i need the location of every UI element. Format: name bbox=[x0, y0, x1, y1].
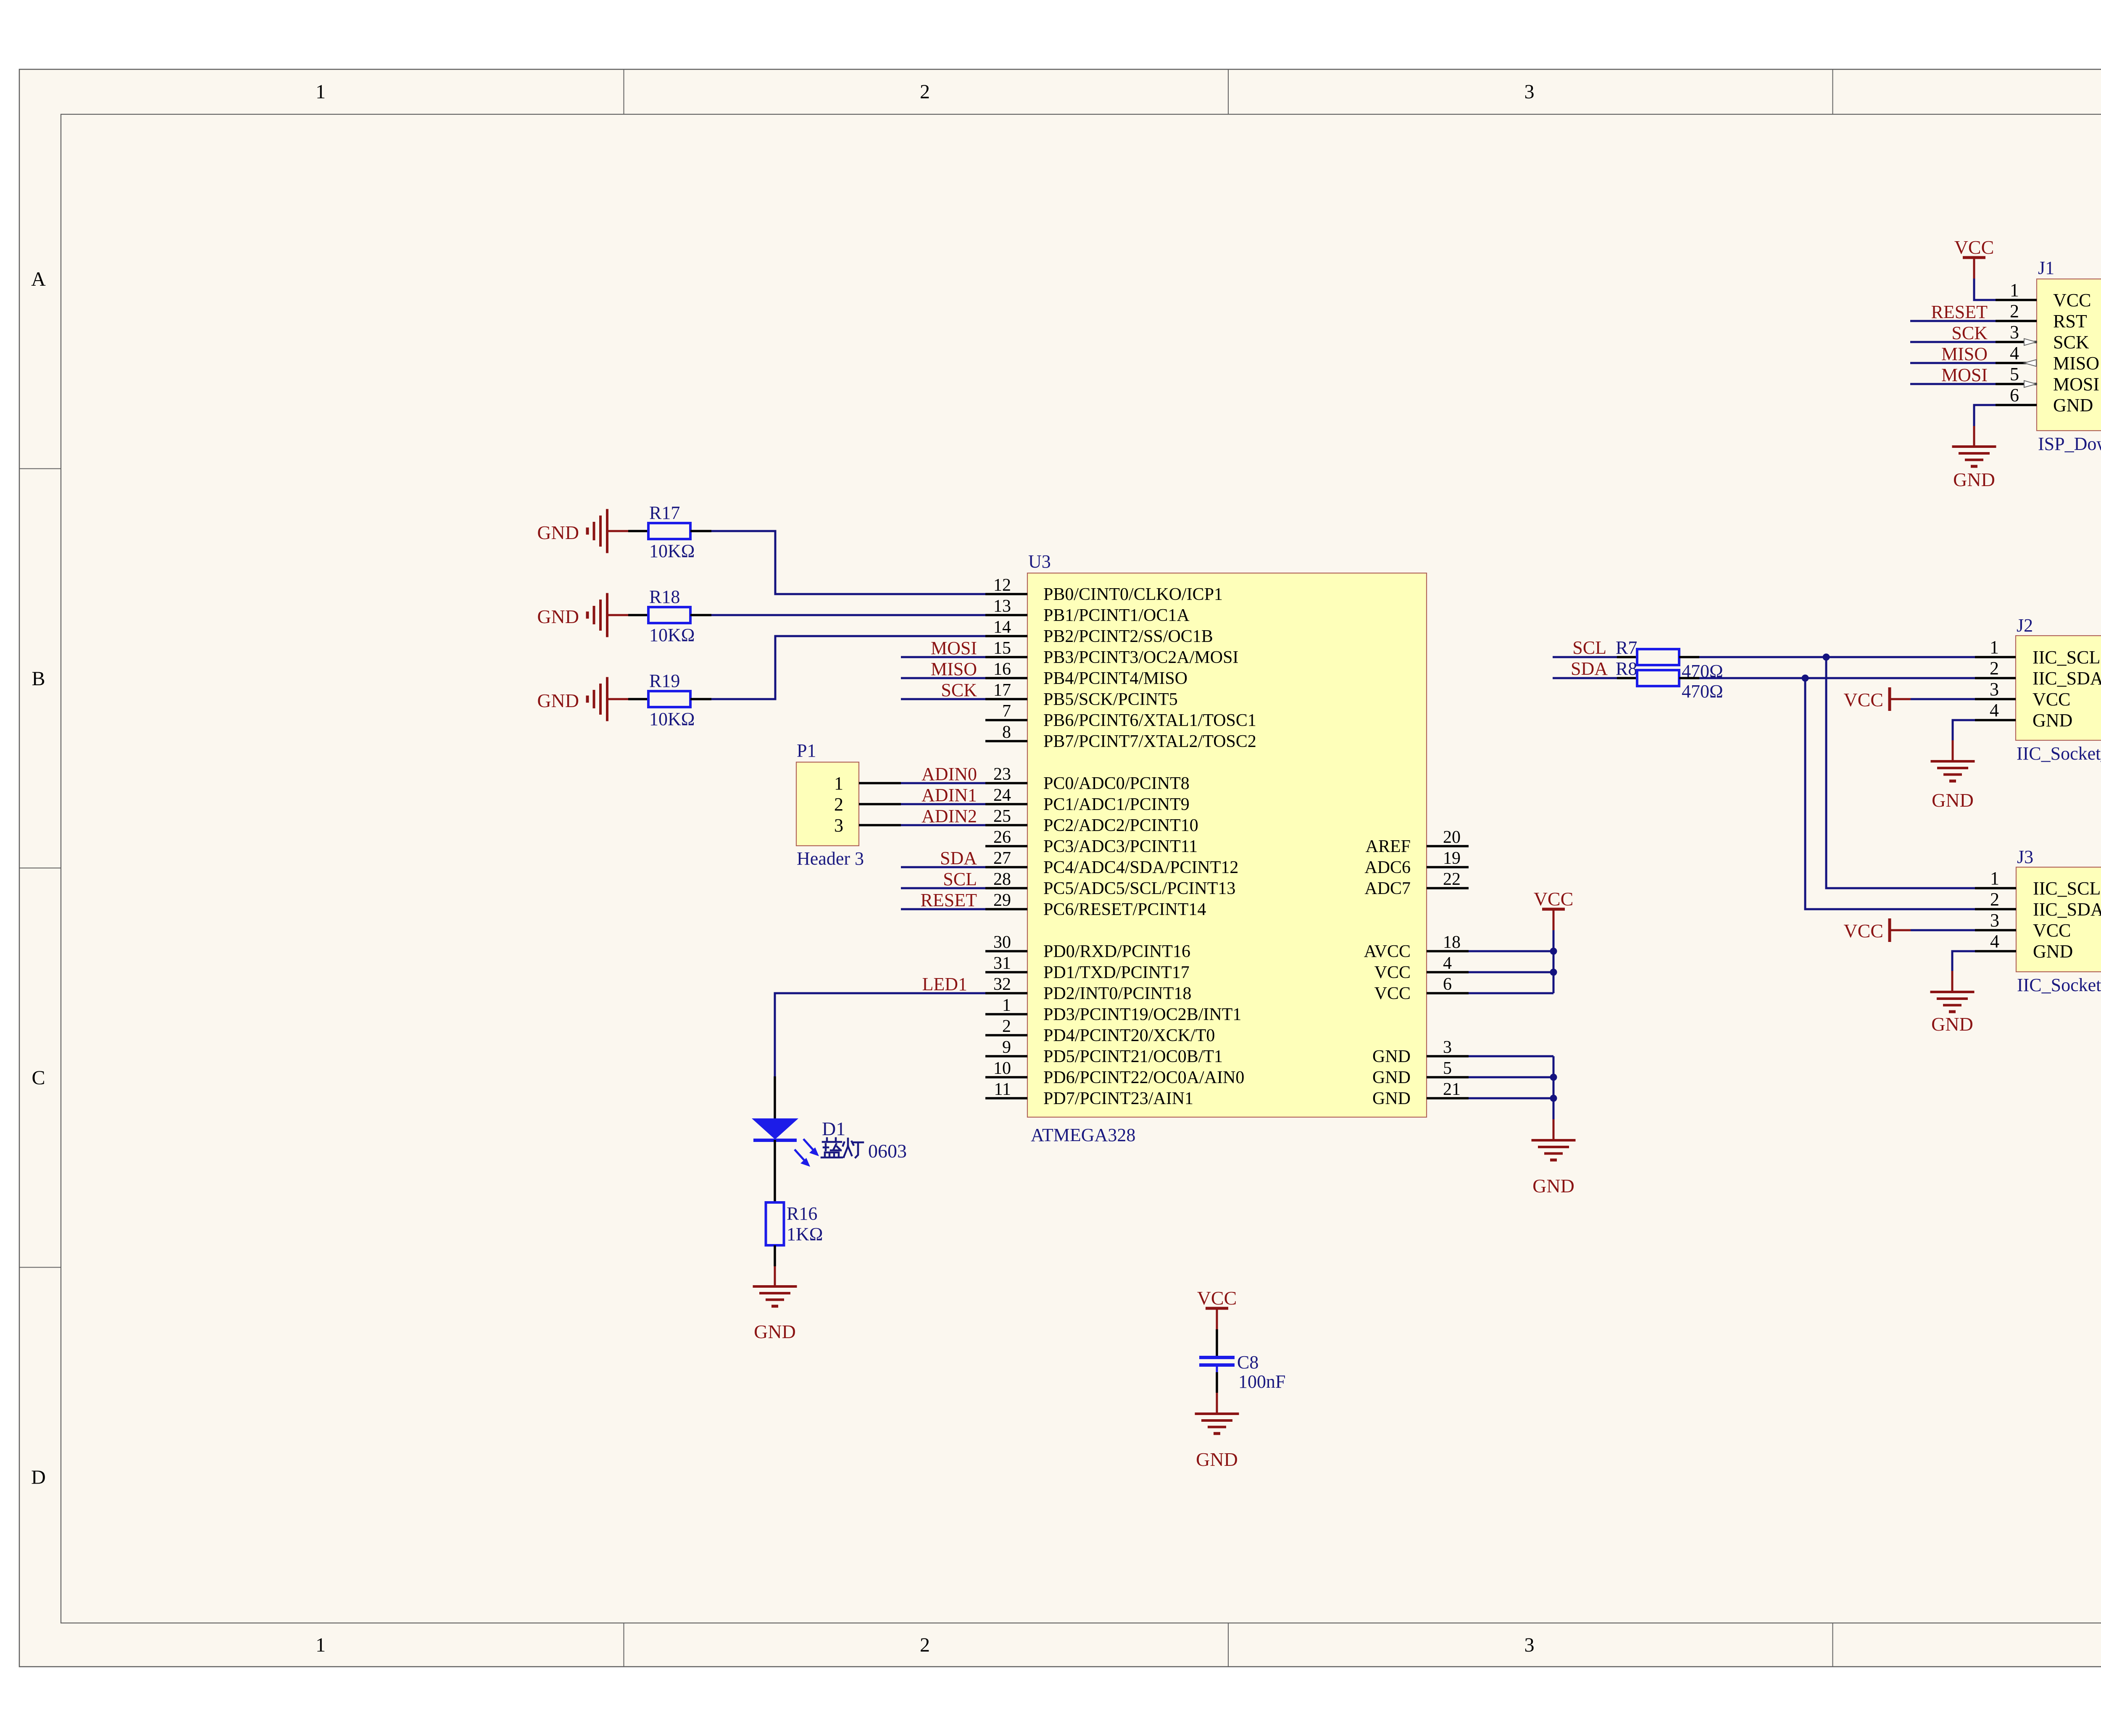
U3 pin 13 PB1/PCINT1/OC1A bbox=[985, 597, 1190, 625]
wire U3 pin 4 to VCC bbox=[1469, 971, 1553, 973]
connector J2 body bbox=[2016, 636, 2101, 740]
svg-text:PD3/PCINT19/OC2B/INT1: PD3/PCINT19/OC2B/INT1 bbox=[1043, 1005, 1241, 1024]
svg-text:4: 4 bbox=[1443, 954, 1452, 973]
wire GND rail stem bbox=[1553, 1119, 1555, 1140]
svg-text:2: 2 bbox=[920, 81, 930, 103]
wire net stub RESET bbox=[901, 908, 985, 910]
wire P1 pin3 to U3 pin 25 bbox=[901, 824, 985, 826]
wire VCC to J1 pin 1 bbox=[1974, 279, 1996, 300]
svg-text:26: 26 bbox=[993, 828, 1011, 847]
svg-text:J1: J1 bbox=[2038, 258, 2054, 278]
U3 pin 20 AREF bbox=[1366, 828, 1469, 856]
LED D1 top pin bbox=[774, 1076, 776, 1119]
svg-text:13: 13 bbox=[993, 597, 1011, 616]
U3 pin 7 PB6/PCINT6/XTAL1/TOSC1 bbox=[985, 702, 1256, 730]
J3 pin 2 IIC_SDA bbox=[1975, 889, 2101, 920]
resistor R17 right pin bbox=[690, 530, 711, 532]
svg-text:25: 25 bbox=[993, 807, 1011, 826]
svg-text:RESET: RESET bbox=[921, 890, 977, 910]
U3 pin 9 PD5/PCINT21/OC0B/T1 bbox=[985, 1038, 1223, 1066]
svg-text:PC0/ADC0/PCINT8: PC0/ADC0/PCINT8 bbox=[1043, 774, 1190, 793]
svg-text:GND: GND bbox=[1372, 1089, 1411, 1108]
svg-text:MISO: MISO bbox=[2053, 353, 2099, 374]
wire R18 to U3 pin 13 bbox=[711, 614, 985, 616]
J1 pin 1 VCC bbox=[1996, 280, 2091, 310]
svg-text:SCL: SCL bbox=[943, 869, 977, 889]
U3 pin 2 PD4/PCINT20/XCK/T0 bbox=[985, 1017, 1215, 1045]
svg-text:100nF: 100nF bbox=[1238, 1371, 1285, 1392]
wire VCC rail vertical bbox=[1553, 930, 1555, 993]
svg-text:J2: J2 bbox=[2017, 615, 2033, 636]
svg-text:PC6/RESET/PCINT14: PC6/RESET/PCINT14 bbox=[1043, 900, 1206, 919]
U3 pin 4 VCC bbox=[1374, 954, 1469, 982]
svg-text:4: 4 bbox=[2010, 343, 2019, 363]
frame column labels bbox=[316, 81, 2101, 1656]
svg-text:C8: C8 bbox=[1237, 1352, 1258, 1373]
J1 pin 2 RST bbox=[1996, 301, 2087, 331]
svg-text:3: 3 bbox=[1990, 679, 1999, 700]
U3 pin 1 PD3/PCINT19/OC2B/INT1 bbox=[985, 996, 1241, 1024]
wire J3 pin 4 to ground bbox=[1952, 951, 1975, 971]
svg-text:RESET: RESET bbox=[1931, 302, 1988, 322]
resistor R18 left pin bbox=[628, 614, 648, 616]
svg-text:ADIN0: ADIN0 bbox=[921, 764, 977, 784]
svg-text:9: 9 bbox=[1002, 1038, 1011, 1057]
U3 pin 16 PB4/PCINT4/MISO bbox=[985, 660, 1187, 688]
svg-text:SCK: SCK bbox=[2053, 332, 2089, 352]
wire R18 ground stem bbox=[607, 614, 628, 616]
svg-text:7: 7 bbox=[1002, 702, 1011, 721]
U3 pin 10 PD6/PCINT22/OC0A/AIN0 bbox=[985, 1059, 1244, 1087]
svg-text:AVCC: AVCC bbox=[1364, 942, 1411, 961]
P1 pin 1 bbox=[834, 773, 901, 794]
frame row labels bbox=[31, 268, 2101, 1489]
svg-text:ADC7: ADC7 bbox=[1364, 879, 1411, 898]
svg-text:PD7/PCINT23/AIN1: PD7/PCINT23/AIN1 bbox=[1043, 1089, 1193, 1108]
svg-text:SDA: SDA bbox=[1571, 658, 1608, 679]
wire C8 to ground bbox=[1216, 1393, 1218, 1414]
ground symbol at R18 bbox=[537, 593, 607, 637]
J1 pin 4 output arrow bbox=[2024, 360, 2036, 366]
IC U3 body bbox=[1027, 573, 1427, 1117]
svg-text:1: 1 bbox=[1990, 868, 1999, 889]
LED D1 bbox=[752, 1118, 819, 1167]
svg-text:GND: GND bbox=[2053, 395, 2093, 416]
U3 pin 8 PB7/PCINT7/XTAL2/TOSC2 bbox=[985, 723, 1256, 751]
svg-text:PB3/PCINT3/OC2A/MOSI: PB3/PCINT3/OC2A/MOSI bbox=[1043, 648, 1238, 667]
svg-text:0603: 0603 bbox=[868, 1140, 907, 1162]
wire R7 to J2 pin 1 bbox=[1699, 656, 1975, 658]
wire net stub SCL bbox=[901, 887, 985, 889]
resistor R19 bbox=[648, 671, 695, 729]
svg-text:PB4/PCINT4/MISO: PB4/PCINT4/MISO bbox=[1043, 669, 1187, 688]
svg-text:3: 3 bbox=[1524, 81, 1535, 103]
svg-text:VCC: VCC bbox=[1843, 920, 1883, 942]
svg-text:1: 1 bbox=[316, 81, 326, 103]
J2 pin 2 IIC_SDA bbox=[1975, 658, 2101, 689]
svg-text:ADC6: ADC6 bbox=[1364, 858, 1411, 877]
svg-text:470Ω: 470Ω bbox=[1682, 681, 1723, 702]
svg-text:R17: R17 bbox=[649, 502, 680, 523]
svg-text:19: 19 bbox=[1443, 849, 1461, 868]
svg-text:GND: GND bbox=[1372, 1068, 1411, 1087]
U3 pin 3 GND bbox=[1372, 1038, 1469, 1066]
ground symbol below R16 bbox=[753, 1286, 797, 1342]
svg-text:PB0/CINT0/CLKO/ICP1: PB0/CINT0/CLKO/ICP1 bbox=[1043, 585, 1223, 604]
svg-text:15: 15 bbox=[993, 639, 1011, 658]
svg-text:PD1/TXD/PCINT17: PD1/TXD/PCINT17 bbox=[1043, 963, 1190, 982]
svg-text:PB6/PCINT6/XTAL1/TOSC1: PB6/PCINT6/XTAL1/TOSC1 bbox=[1043, 711, 1256, 730]
wire net stub SDA bbox=[901, 866, 985, 868]
junction bbox=[1550, 969, 1557, 976]
svg-text:GND: GND bbox=[1532, 1175, 1574, 1197]
svg-text:27: 27 bbox=[993, 849, 1011, 868]
svg-text:20: 20 bbox=[1443, 828, 1461, 847]
svg-text:VCC: VCC bbox=[1197, 1287, 1237, 1309]
svg-text:1KΩ: 1KΩ bbox=[787, 1224, 823, 1244]
resistor R19 right pin bbox=[690, 698, 711, 700]
svg-text:SCK: SCK bbox=[941, 680, 977, 700]
ground symbol below U3 right rail bbox=[1532, 1140, 1576, 1197]
wire net stub RESET at J1 bbox=[1910, 320, 1996, 322]
svg-text:IIC_Socket_4P: IIC_Socket_4P bbox=[2017, 975, 2101, 995]
svg-text:GND: GND bbox=[1931, 1013, 1973, 1035]
svg-text:PD5/PCINT21/OC0B/T1: PD5/PCINT21/OC0B/T1 bbox=[1043, 1047, 1223, 1066]
wire R17 ground stem bbox=[607, 530, 628, 532]
U3 pin 28 PC5/ADC5/SCL/PCINT13 bbox=[985, 870, 1235, 898]
svg-text:2: 2 bbox=[1990, 889, 1999, 910]
ground symbol at R17 bbox=[537, 509, 607, 553]
U3 pin 6 VCC bbox=[1374, 975, 1469, 1003]
svg-text:1: 1 bbox=[1002, 996, 1011, 1015]
wire SDA tail bbox=[1553, 677, 1617, 679]
ground symbol below C8 bbox=[1195, 1414, 1239, 1470]
wire net stub MOSI bbox=[901, 656, 985, 658]
resistor R17 left pin bbox=[628, 530, 648, 532]
junction bbox=[1802, 675, 1809, 682]
J1 pin 3 SCK bbox=[1996, 322, 2089, 352]
capacitor C8 bottom pin bbox=[1216, 1372, 1218, 1393]
svg-text:28: 28 bbox=[993, 870, 1011, 889]
U3 pin 18 AVCC bbox=[1364, 933, 1469, 961]
power VCC at J2 pin 3 bbox=[1843, 687, 1911, 711]
svg-text:R8: R8 bbox=[1616, 658, 1637, 679]
U3 pin 22 ADC7 bbox=[1364, 870, 1469, 898]
wire J2 pin 4 to ground bbox=[1953, 720, 1975, 740]
J1 pin 3 input arrow bbox=[2024, 339, 2036, 345]
svg-text:ADIN2: ADIN2 bbox=[921, 806, 977, 826]
wire VCC to C8 bbox=[1216, 1329, 1218, 1356]
svg-text:GND: GND bbox=[754, 1321, 796, 1342]
wire U3 pin 6 to VCC bbox=[1469, 992, 1553, 994]
svg-text:VCC: VCC bbox=[1374, 984, 1411, 1003]
wire R16 to ground bbox=[774, 1266, 776, 1286]
wire U3 pin 32 to LED1 bbox=[775, 993, 985, 1076]
wire J1 pin 6 to ground bbox=[1974, 405, 1996, 426]
U3 pin 5 GND bbox=[1372, 1059, 1469, 1087]
J3 pin 4 GND bbox=[1975, 931, 2073, 962]
U3 pin 15 PB3/PCINT3/OC2A/MOSI bbox=[985, 639, 1238, 667]
wire SDA vertical to J3 bbox=[1805, 678, 1975, 909]
svg-text:PD4/PCINT20/XCK/T0: PD4/PCINT20/XCK/T0 bbox=[1043, 1026, 1215, 1045]
junction bbox=[1823, 654, 1830, 661]
svg-text:PD0/RXD/PCINT16: PD0/RXD/PCINT16 bbox=[1043, 942, 1190, 961]
connector J3 body bbox=[2016, 867, 2101, 972]
svg-text:1: 1 bbox=[834, 773, 843, 794]
svg-text:18: 18 bbox=[1443, 933, 1461, 952]
svg-text:3: 3 bbox=[2010, 322, 2019, 342]
svg-text:GND: GND bbox=[1372, 1047, 1411, 1066]
svg-text:ISP_Download: ISP_Download bbox=[2038, 434, 2101, 454]
svg-text:5: 5 bbox=[1443, 1059, 1452, 1078]
resistor R18 bbox=[648, 587, 695, 645]
svg-text:PC2/ADC2/PCINT10: PC2/ADC2/PCINT10 bbox=[1043, 816, 1198, 835]
resistor R18 right pin bbox=[690, 614, 711, 616]
svg-text:GND: GND bbox=[1196, 1449, 1238, 1470]
svg-text:23: 23 bbox=[993, 765, 1011, 784]
wire R19 to U3 pin 14 bbox=[711, 636, 985, 699]
svg-text:PC1/ADC1/PCINT9: PC1/ADC1/PCINT9 bbox=[1043, 795, 1190, 814]
U3 pin 14 PB2/PCINT2/SS/OC1B bbox=[985, 618, 1213, 646]
svg-text:2: 2 bbox=[2010, 301, 2019, 321]
svg-text:VCC: VCC bbox=[2033, 920, 2071, 941]
wire SCL tail bbox=[1553, 656, 1617, 658]
svg-text:PC5/ADC5/SCL/PCINT13: PC5/ADC5/SCL/PCINT13 bbox=[1043, 879, 1235, 898]
wire R8 to J2 pin 2 bbox=[1699, 677, 1975, 679]
wire J1 ground stem bbox=[1973, 426, 1975, 447]
U3 pin 30 PD0/RXD/PCINT16 bbox=[985, 933, 1190, 961]
P1 pin 3 bbox=[834, 815, 901, 836]
power VCC above C8 bbox=[1197, 1287, 1237, 1329]
svg-text:IIC_SCL: IIC_SCL bbox=[2033, 878, 2101, 899]
J3 pin 3 VCC bbox=[1975, 910, 2071, 941]
U3 pin 31 PD1/TXD/PCINT17 bbox=[985, 954, 1190, 982]
wire net stub SCK at J1 bbox=[1910, 341, 1996, 343]
svg-text:16: 16 bbox=[993, 660, 1011, 679]
svg-text:RST: RST bbox=[2053, 311, 2087, 331]
svg-text:U3: U3 bbox=[1028, 551, 1051, 572]
wire U3 pin 3 to GND bbox=[1469, 1055, 1553, 1057]
svg-text:R18: R18 bbox=[649, 587, 680, 607]
wire R17 to U3 pin 12 bbox=[711, 531, 985, 594]
svg-text:VCC: VCC bbox=[1374, 963, 1411, 982]
svg-text:VCC: VCC bbox=[1534, 888, 1574, 910]
svg-text:30: 30 bbox=[993, 933, 1011, 952]
LED D1 bottom pin bbox=[774, 1140, 776, 1202]
svg-text:PB2/PCINT2/SS/OC1B: PB2/PCINT2/SS/OC1B bbox=[1043, 627, 1213, 646]
svg-text:MOSI: MOSI bbox=[931, 638, 977, 658]
frame column ticks bbox=[624, 69, 1833, 1667]
U3 pin 32 PD2/INT0/PCINT18 bbox=[985, 975, 1191, 1003]
svg-text:SDA: SDA bbox=[940, 848, 977, 868]
svg-text:R16: R16 bbox=[787, 1203, 817, 1224]
svg-text:PD6/PCINT22/OC0A/AIN0: PD6/PCINT22/OC0A/AIN0 bbox=[1043, 1068, 1244, 1087]
svg-text:IIC_Socket_4P: IIC_Socket_4P bbox=[2017, 743, 2101, 764]
svg-text:1: 1 bbox=[1990, 637, 1999, 658]
wire SCL vertical to J3 bbox=[1826, 657, 1975, 888]
svg-text:32: 32 bbox=[993, 975, 1011, 994]
wire R19 ground stem bbox=[607, 698, 628, 700]
svg-text:3: 3 bbox=[1443, 1038, 1452, 1057]
svg-text:PD2/INT0/PCINT18: PD2/INT0/PCINT18 bbox=[1043, 984, 1191, 1003]
resistor R17 bbox=[648, 502, 695, 561]
ground symbol below J2 bbox=[1931, 761, 1975, 811]
wire J2 ground stem bbox=[1952, 740, 1954, 761]
resistor R19 left pin bbox=[628, 698, 648, 700]
J1 pin 5 MOSI bbox=[1996, 364, 2099, 395]
wire U3 pin 5 to GND bbox=[1469, 1076, 1553, 1078]
svg-text:D1: D1 bbox=[822, 1118, 845, 1139]
ground symbol at R19 bbox=[537, 677, 607, 721]
svg-text:4: 4 bbox=[1990, 700, 1999, 721]
resistor R16 bottom pin bbox=[774, 1245, 776, 1266]
svg-text:10: 10 bbox=[993, 1059, 1011, 1078]
junction bbox=[1550, 948, 1557, 955]
svg-text:Header 3: Header 3 bbox=[797, 848, 864, 869]
svg-text:6: 6 bbox=[2010, 385, 2019, 405]
junction bbox=[1550, 1074, 1557, 1081]
LED D1 comment lamp 0603 bbox=[821, 1138, 907, 1162]
svg-text:10KΩ: 10KΩ bbox=[649, 709, 695, 729]
svg-text:PB5/SCK/PCINT5: PB5/SCK/PCINT5 bbox=[1043, 690, 1178, 709]
svg-text:B: B bbox=[32, 668, 45, 690]
svg-text:VCC: VCC bbox=[1843, 689, 1883, 710]
wire GND rail vertical bbox=[1553, 1056, 1555, 1119]
J1 pin 4 MISO bbox=[1996, 343, 2099, 374]
connector P1 body bbox=[796, 762, 859, 846]
J2 pin 4 GND bbox=[1975, 700, 2072, 731]
svg-text:1: 1 bbox=[316, 1634, 326, 1656]
wire VCC to J2 pin 3 bbox=[1911, 698, 1975, 700]
svg-text:11: 11 bbox=[994, 1080, 1011, 1099]
ground symbol below J3 bbox=[1930, 992, 1975, 1035]
frame row ticks bbox=[19, 469, 2101, 1268]
J2 pin 1 IIC_SCL bbox=[1975, 637, 2100, 668]
svg-text:MOSI: MOSI bbox=[2053, 374, 2099, 395]
wire U3 pin 18 to VCC bbox=[1469, 950, 1553, 952]
U3 pin 12 PB0/CINT0/CLKO/ICP1 bbox=[985, 576, 1223, 604]
resistor R8 left pin bbox=[1617, 677, 1637, 679]
svg-text:PB7/PCINT7/XTAL2/TOSC2: PB7/PCINT7/XTAL2/TOSC2 bbox=[1043, 732, 1256, 751]
J3 pin 1 IIC_SCL bbox=[1975, 868, 2101, 899]
svg-text:C: C bbox=[32, 1067, 45, 1089]
svg-text:24: 24 bbox=[993, 786, 1011, 805]
svg-text:21: 21 bbox=[1443, 1080, 1461, 1099]
U3 pin 25 PC2/ADC2/PCINT10 bbox=[985, 807, 1198, 835]
svg-text:2: 2 bbox=[920, 1634, 930, 1656]
svg-text:MISO: MISO bbox=[931, 659, 977, 679]
ground symbol below J1 bbox=[1952, 447, 1996, 490]
resistor R8 bbox=[1637, 670, 1679, 686]
U3 pin 27 PC4/ADC4/SDA/PCINT12 bbox=[985, 849, 1238, 877]
U3 pin 21 GND bbox=[1372, 1080, 1469, 1108]
resistor R8 right pin bbox=[1679, 677, 1699, 679]
power VCC above U3 right rail bbox=[1534, 888, 1574, 930]
resistor R7 bbox=[1637, 649, 1679, 665]
svg-text:29: 29 bbox=[993, 891, 1011, 910]
svg-text:3: 3 bbox=[1990, 910, 1999, 931]
wire VCC to J3 pin 3 bbox=[1911, 929, 1975, 931]
resistor R16 bbox=[766, 1202, 823, 1245]
svg-text:PB1/PCINT1/OC1A: PB1/PCINT1/OC1A bbox=[1043, 606, 1190, 625]
capacitor C8 bbox=[1199, 1352, 1285, 1392]
svg-text:10KΩ: 10KΩ bbox=[649, 541, 695, 561]
U3 pin 26 PC3/ADC3/PCINT11 bbox=[985, 828, 1198, 856]
svg-text:R7: R7 bbox=[1616, 637, 1637, 658]
svg-text:31: 31 bbox=[993, 954, 1011, 973]
J2 pin 3 VCC bbox=[1975, 679, 2070, 710]
svg-text:J3: J3 bbox=[2017, 847, 2033, 867]
svg-text:GND: GND bbox=[1953, 469, 1995, 490]
wire net stub MOSI at J1 bbox=[1910, 383, 1996, 385]
svg-text:GND: GND bbox=[537, 522, 579, 543]
svg-text:IIC_SDA: IIC_SDA bbox=[2033, 668, 2101, 689]
svg-text:VCC: VCC bbox=[2053, 290, 2091, 310]
wire P1 pin2 to U3 pin 24 bbox=[901, 803, 985, 805]
svg-text:P1: P1 bbox=[797, 740, 816, 761]
wire J3 ground stem bbox=[1951, 971, 1954, 992]
svg-text:AREF: AREF bbox=[1366, 837, 1411, 856]
svg-text:GND: GND bbox=[1932, 789, 1974, 811]
svg-text:SCL: SCL bbox=[1572, 637, 1606, 658]
svg-text:VCC: VCC bbox=[1954, 237, 1994, 258]
svg-text:1: 1 bbox=[2010, 280, 2019, 300]
svg-text:VCC: VCC bbox=[2033, 689, 2070, 710]
svg-text:2: 2 bbox=[1990, 658, 1999, 679]
svg-text:2: 2 bbox=[1002, 1017, 1011, 1036]
svg-text:10KΩ: 10KΩ bbox=[649, 625, 695, 645]
svg-text:IIC_SDA: IIC_SDA bbox=[2033, 899, 2101, 920]
J1 pin 5 input arrow bbox=[2024, 381, 2036, 387]
wire net stub SCK bbox=[901, 698, 985, 700]
J1 pin 6 GND bbox=[1996, 385, 2093, 416]
svg-text:2: 2 bbox=[834, 794, 843, 815]
svg-text:14: 14 bbox=[993, 618, 1011, 637]
resistor R7 right pin bbox=[1679, 656, 1699, 658]
svg-text:MISO: MISO bbox=[1941, 344, 1988, 364]
P1 pin 2 bbox=[834, 794, 901, 815]
U3 pin 19 ADC6 bbox=[1364, 849, 1469, 877]
connector J1 body bbox=[2037, 279, 2101, 431]
svg-text:17: 17 bbox=[993, 681, 1011, 700]
svg-text:12: 12 bbox=[993, 576, 1011, 595]
U3 pin 11 PD7/PCINT23/AIN1 bbox=[985, 1080, 1193, 1108]
svg-text:6: 6 bbox=[1443, 975, 1452, 994]
power VCC at J3 pin 3 bbox=[1843, 918, 1911, 942]
svg-text:GND: GND bbox=[537, 690, 579, 711]
svg-text:LED1: LED1 bbox=[922, 974, 967, 994]
svg-text:IIC_SCL: IIC_SCL bbox=[2033, 647, 2100, 668]
U3 pin 24 PC1/ADC1/PCINT9 bbox=[985, 786, 1190, 814]
svg-text:8: 8 bbox=[1002, 723, 1011, 742]
U3 pin 17 PB5/SCK/PCINT5 bbox=[985, 681, 1178, 709]
svg-text:PC3/ADC3/PCINT11: PC3/ADC3/PCINT11 bbox=[1043, 837, 1198, 856]
svg-text:GND: GND bbox=[2033, 710, 2072, 731]
svg-text:A: A bbox=[31, 268, 46, 290]
U3 pin 29 PC6/RESET/PCINT14 bbox=[985, 891, 1206, 919]
resistor R7 left pin bbox=[1617, 656, 1637, 658]
wire P1 pin1 to U3 pin 23 bbox=[901, 782, 985, 784]
wire net stub MISO at J1 bbox=[1910, 362, 1996, 364]
svg-text:D: D bbox=[31, 1466, 46, 1489]
svg-text:4: 4 bbox=[1990, 931, 1999, 952]
power VCC above J1 bbox=[1954, 237, 1994, 279]
U3 pin 23 PC0/ADC0/PCINT8 bbox=[985, 765, 1190, 793]
svg-text:3: 3 bbox=[834, 815, 843, 836]
svg-text:R19: R19 bbox=[649, 671, 680, 691]
svg-text:ATMEGA328: ATMEGA328 bbox=[1031, 1125, 1135, 1145]
svg-text:3: 3 bbox=[1524, 1634, 1535, 1656]
